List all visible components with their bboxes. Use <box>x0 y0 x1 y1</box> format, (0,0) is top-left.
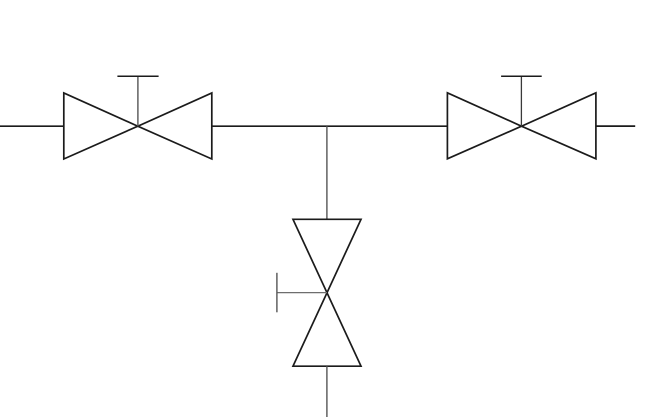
valve V1 body (left horizontal gate valve) <box>64 93 212 159</box>
valve V1 handle T-bar <box>117 75 158 77</box>
valve V3 body (bottom vertical gate valve) <box>293 219 361 366</box>
valve V2 body (right horizontal gate valve) <box>447 93 596 159</box>
valve V2 stem <box>520 76 522 126</box>
wire: bottom outlet pipe <box>326 366 328 417</box>
wire: left inlet pipe <box>0 125 64 127</box>
valve V3 stem <box>277 292 327 294</box>
wire: right outlet pipe <box>596 125 635 127</box>
wire: vertical branch from tee to V3 <box>326 126 328 219</box>
valve V1 stem <box>137 76 139 126</box>
wire: middle pipe between V1 and V2 <box>212 125 448 127</box>
valve V2 handle T-bar <box>501 75 542 77</box>
valve V3 handle T-bar <box>276 273 278 313</box>
